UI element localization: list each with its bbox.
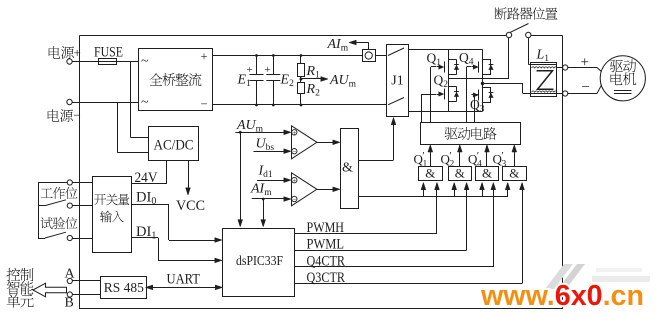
svg-text:www.6x0.cn: www.6x0.cn xyxy=(480,280,644,312)
svg-text:&: & xyxy=(509,166,519,181)
svg-text:+: + xyxy=(581,55,589,71)
svg-text:+: + xyxy=(201,50,208,64)
svg-text:−: − xyxy=(582,80,590,96)
svg-text:B: B xyxy=(65,296,74,311)
svg-text:24V: 24V xyxy=(135,170,158,186)
svg-text:~: ~ xyxy=(141,54,149,69)
svg-text:+: + xyxy=(292,176,296,185)
svg-text:+: + xyxy=(247,64,253,76)
svg-text:−: − xyxy=(292,195,296,204)
svg-text:&: & xyxy=(425,166,435,181)
svg-text:&: & xyxy=(342,161,353,176)
svg-text:RS 485: RS 485 xyxy=(104,281,144,296)
svg-text:PWMH: PWMH xyxy=(307,220,345,236)
svg-text:Q4CTR: Q4CTR xyxy=(307,254,346,270)
svg-text:J1: J1 xyxy=(391,74,403,89)
svg-text:−: − xyxy=(74,108,81,123)
svg-text:−: − xyxy=(292,147,296,156)
svg-text:+: + xyxy=(74,45,81,60)
svg-text:+: + xyxy=(292,128,296,137)
svg-text:Q3CTR: Q3CTR xyxy=(307,270,346,286)
svg-text:AC/DC: AC/DC xyxy=(154,138,194,154)
svg-text:−: − xyxy=(201,97,208,111)
svg-text:&: & xyxy=(455,166,465,181)
svg-text:&: & xyxy=(482,166,492,181)
svg-text:UART: UART xyxy=(167,272,201,288)
svg-text:PWML: PWML xyxy=(307,237,345,253)
svg-text:+: + xyxy=(265,64,271,76)
svg-text:FUSE: FUSE xyxy=(94,45,123,61)
svg-text:VCC: VCC xyxy=(176,198,205,214)
svg-text:dsPIC33F: dsPIC33F xyxy=(236,254,283,269)
svg-text:~: ~ xyxy=(141,95,149,110)
